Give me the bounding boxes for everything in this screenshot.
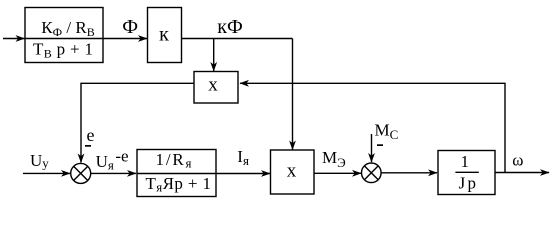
- svg-text:Ф: Ф: [122, 16, 138, 38]
- block W3: inertia 1/Jp: [438, 151, 495, 195]
- svg-text:1: 1: [460, 152, 469, 171]
- svg-text:e: e: [87, 125, 95, 145]
- svg-text:кФ: кФ: [217, 16, 243, 38]
- svg-text:х: х: [287, 161, 297, 182]
- summing junction S2: [362, 163, 382, 183]
- wire: X1 output (e) left and down to summing junction: [81, 83, 194, 162]
- svg-text:ТяЯp + 1: ТяЯp + 1: [146, 174, 212, 195]
- block X1: multiplier (back-EMF): [194, 72, 238, 104]
- wire: кФ signal from gain к to corner: [182, 38, 293, 40]
- svg-text:к: к: [159, 24, 169, 46]
- svg-text:ω: ω: [512, 151, 523, 170]
- wire: Мс load torque down into summing junction 2: [371, 134, 373, 162]
- svg-text:х: х: [208, 75, 218, 96]
- svg-text:Jp: Jp: [459, 173, 476, 192]
- wire: from summing junction 2 to inertia block: [381, 172, 437, 174]
- wire: Мэ from X2 to summing junction 2: [314, 172, 361, 174]
- wire: Iя from armature block to multiplier X2: [216, 173, 270, 175]
- wire: input arrow into field block: [3, 38, 25, 40]
- minus sign at summing junction 1: [85, 145, 91, 147]
- wire: Ф signal from field block to gain к: [103, 38, 147, 40]
- wire: Uy input into summing junction 1: [23, 172, 70, 174]
- svg-text:ТВ p + 1: ТВ p + 1: [33, 40, 93, 61]
- wire: Uя-e from summing junction 1 to armature block: [91, 172, 136, 174]
- summing junction S1: [71, 163, 91, 183]
- wire: speed feedback from ω line up and left into X1: [240, 83, 505, 172]
- wire: ω output to the right: [495, 172, 549, 174]
- wire: кФ down into multiplier X2: [292, 39, 294, 150]
- wire: branch down from кФ into multiplier X1: [213, 39, 215, 72]
- block W1: field transfer function Кф/Rв / (Тв p + 1): [25, 8, 103, 63]
- block X2: multiplier (torque): [271, 150, 315, 194]
- block K: gain к: [148, 8, 182, 63]
- minus sign at summing junction 2: [377, 144, 383, 146]
- block W2: armature transfer function 1/Rя / (ТяЯp + 1): [137, 150, 216, 197]
